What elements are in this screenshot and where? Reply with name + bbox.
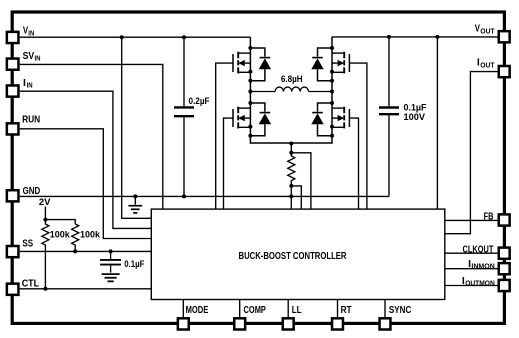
wire 2V node to second resistor — [45, 220, 75, 224]
wire IIN (to controller left edge) — [20, 91, 152, 228]
pin SS — [7, 238, 33, 257]
svg-text:0.1µF: 0.1µF — [124, 259, 144, 270]
svg-text:FB: FB — [484, 211, 494, 222]
svg-text:SS: SS — [22, 238, 33, 249]
svg-text:I: I — [23, 78, 26, 89]
pin GND — [7, 186, 40, 201]
svg-text:100V: 100V — [404, 112, 426, 123]
wire VOUT sense branch (to controller top edge) — [436, 37, 438, 209]
svg-text:SYNC: SYNC — [389, 305, 412, 316]
wire sense+ (resistor top to controller) — [291, 153, 311, 209]
wire SS net — [20, 250, 152, 252]
svg-text:OUTMON: OUTMON — [465, 280, 495, 287]
svg-text:OUT: OUT — [480, 28, 495, 35]
pin IIN — [7, 78, 33, 97]
svg-text:LL: LL — [292, 305, 302, 316]
wire SVIN (to controller top edge) — [20, 64, 163, 209]
wire sense- (resistor bottom to controller) — [291, 186, 301, 209]
resistor 100k (2V to CTL) — [42, 220, 71, 289]
pin SVIN — [7, 51, 41, 70]
transistor M4 (bottom-right NMOS, switch C) — [311, 103, 349, 136]
resistor RSENSE (current sense) — [288, 144, 295, 186]
svg-text:0.2µF: 0.2µF — [189, 96, 210, 107]
svg-text:V: V — [475, 24, 480, 35]
wire SYNC stub — [384, 300, 386, 318]
pin LL — [283, 305, 302, 330]
transistor M1 (top-left NMOS, switch A) — [233, 37, 271, 92]
ground (soft-start cap) — [102, 274, 120, 281]
wire FB — [445, 219, 498, 221]
pin CTL — [7, 278, 39, 294]
pin IOUTMON — [462, 276, 510, 291]
pin FB — [484, 211, 510, 225]
svg-text:GND: GND — [23, 186, 41, 197]
wire VOUT net (M3 drain to VOUT pin) — [332, 36, 498, 38]
ground (GND line chassis symbol) — [128, 196, 142, 213]
pin MODE — [178, 305, 209, 330]
svg-text:2V: 2V — [39, 197, 51, 208]
pin VOUT — [475, 24, 510, 43]
pin IINMON — [468, 259, 510, 274]
wire VIN sense branch (to controller left edge) — [122, 37, 152, 218]
resistor 100k (2V to SS) — [72, 224, 101, 251]
wire IOUTMON — [445, 285, 498, 287]
wire MODE stub — [182, 300, 184, 318]
capacitor 0.1uF 100V (output) — [379, 37, 427, 197]
wire GND net — [20, 195, 389, 197]
capacitor 0.2uF — [174, 37, 210, 196]
wire CLKOUT — [445, 252, 498, 254]
svg-text:6.8µH: 6.8µH — [281, 74, 303, 85]
svg-text:CTL: CTL — [22, 278, 39, 289]
wire CTL net — [20, 288, 152, 290]
node 2V source stub — [39, 197, 51, 220]
pin COMP — [234, 305, 266, 330]
svg-text:SV: SV — [23, 51, 35, 62]
svg-text:COMP: COMP — [244, 305, 266, 316]
wire M4 gate to controller — [349, 118, 359, 209]
svg-text:IN: IN — [27, 83, 33, 90]
svg-text:IN: IN — [35, 56, 41, 63]
svg-text:RT: RT — [341, 305, 353, 316]
wire M2 gate to controller — [224, 118, 234, 209]
wire RT stub — [337, 300, 339, 318]
svg-text:INMON: INMON — [471, 264, 494, 271]
inductor L 6.8uH — [250, 74, 332, 91]
controller block U1 — [151, 209, 445, 299]
wire VIN net (VIN pin to M1 drain) — [20, 36, 251, 38]
wire resistor bottom to controller (through GND junction) — [290, 186, 292, 209]
transistor M2 (bottom-left NMOS, switch B) — [233, 92, 332, 143]
svg-text:RUN: RUN — [22, 115, 40, 126]
capacitor 0.1uF (soft-start) — [100, 251, 144, 272]
pin RUN — [7, 115, 40, 135]
wire M3 gate to controller — [349, 63, 367, 209]
pin RT — [332, 305, 352, 330]
pin SYNC — [380, 305, 412, 330]
svg-text:BUCK-BOOST CONTROLLER: BUCK-BOOST CONTROLLER — [239, 251, 348, 262]
svg-text:CLKOUT: CLKOUT — [463, 244, 494, 255]
wire IOUT (to controller right edge) — [445, 72, 498, 234]
pin VIN — [7, 26, 34, 43]
wire COMP stub — [239, 300, 241, 318]
svg-text:100k: 100k — [50, 229, 71, 240]
transistor M3 (top-right NMOS, switch D) — [311, 37, 349, 92]
pin IOUT — [477, 58, 510, 78]
wire M1 gate to controller — [216, 63, 234, 209]
wire RUN (to controller left edge) — [20, 129, 152, 239]
svg-text:OUT: OUT — [480, 62, 495, 69]
svg-text:100k: 100k — [80, 229, 101, 240]
svg-text:IN: IN — [28, 30, 34, 37]
pin CLKOUT — [463, 244, 510, 259]
wire LL stub — [287, 300, 289, 318]
wire IINMON — [445, 268, 498, 270]
svg-text:MODE: MODE — [186, 305, 209, 316]
